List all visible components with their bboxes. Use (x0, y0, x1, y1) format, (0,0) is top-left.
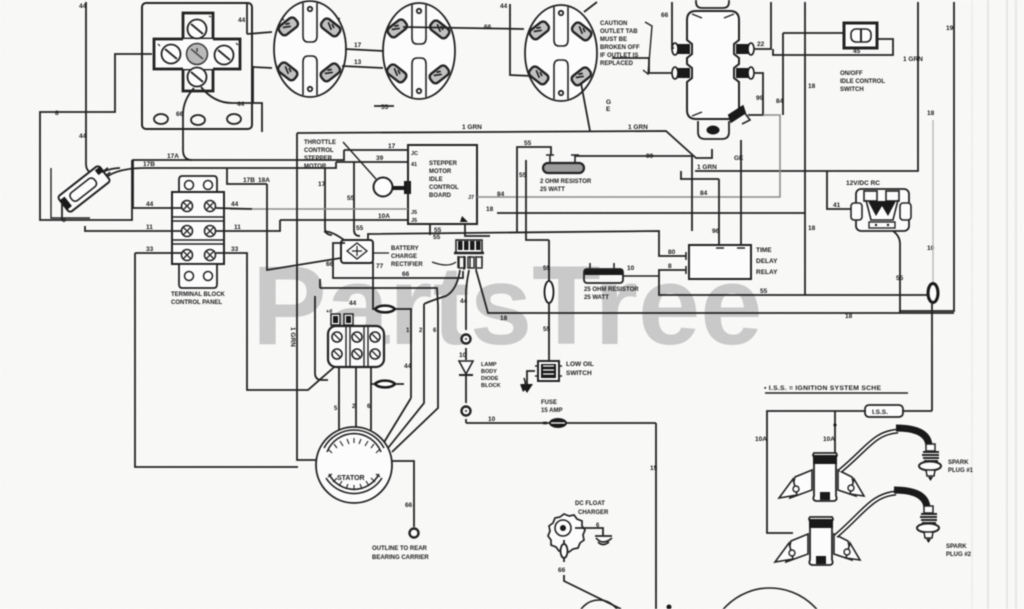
spark plug 2 (917, 506, 939, 543)
wire 55 vertical to low oil (548, 240, 550, 361)
wire 39 into board (108, 162, 408, 176)
wire 41 into 12V RC (827, 171, 851, 209)
oval connector h2 (375, 381, 395, 388)
left bracket wire (315, 296, 328, 380)
jog of 17 wires right of TB (227, 168, 267, 184)
fuse (541, 400, 562, 414)
receptacle R3 duplex (383, 3, 455, 99)
wire 17 into board (133, 150, 408, 208)
small arc bottom left (577, 600, 621, 609)
wire 55 from 12V RC bottom (893, 231, 900, 313)
stator (316, 427, 392, 503)
right vertical 1 GRN (681, 2, 918, 179)
circuit breaker CB main body (672, 0, 754, 139)
ISS module box (865, 405, 903, 417)
engine circle (708, 588, 832, 609)
wire from charger to ground (575, 528, 603, 536)
outline text (372, 546, 429, 561)
plug bottom lead (61, 202, 63, 220)
stepper motor circle (374, 178, 393, 197)
wire 18 long from board right (497, 2, 805, 295)
terminal block text (171, 292, 226, 306)
TD top wires (680, 179, 719, 245)
gray wire to oval (932, 120, 934, 283)
wire R4 top slant (584, 2, 597, 12)
ignition system title (764, 385, 908, 393)
wire switch right loop label 45 (773, 39, 893, 55)
plug guard bracket (51, 168, 90, 218)
CB terminals left (677, 44, 690, 54)
leader rectifier (374, 252, 389, 254)
12V/DC receptacle (846, 180, 911, 231)
receptacle R4 duplex (525, 5, 597, 101)
wire into R2 bottom-left slot (253, 67, 272, 103)
wire 77 rect bottom down (372, 262, 374, 305)
CB actuator bowtie (727, 103, 748, 125)
TB row1 right wire 44 (216, 208, 252, 209)
TB row3 left wire 33 (135, 253, 298, 467)
oval connector right column (928, 284, 938, 303)
wire R2-R3 upper, label 17 (345, 49, 384, 51)
wire 44 from top (86, 2, 94, 174)
connector J1 (454, 240, 484, 270)
CB bottom box (698, 121, 729, 139)
CB terminals right (736, 44, 749, 54)
resistor 2 ohm (543, 155, 584, 173)
bottom trio wires to stator (339, 367, 371, 430)
ignition coil 2 (775, 517, 860, 565)
6-pin connector block (328, 314, 384, 367)
wire rect top-left curve label 55 (324, 232, 344, 240)
gray wire 44 into board bottom-left (230, 208, 408, 210)
wire 55 J1 down-left slant (466, 270, 469, 305)
wire lower loop left (320, 279, 438, 306)
rectifier text (391, 246, 423, 268)
wire 55 into 2ohm left pin (517, 147, 551, 233)
board bottom hooks (430, 224, 490, 236)
connector plug P1 (57, 161, 115, 212)
wire 90 rect top to TD (368, 231, 686, 256)
gray wire 84 from board J7 (477, 115, 780, 197)
wire from R1 bottom screw to right (201, 87, 262, 132)
trio verticals (383, 304, 438, 452)
receptacle R1 120/240V twist-lock cross (154, 13, 240, 91)
terminal block TB (172, 176, 224, 288)
ignition coil 1 (779, 453, 864, 501)
wire 1 GRN long horizontal (297, 83, 712, 158)
wire 17 top-left of rect (267, 184, 341, 270)
switch text (840, 71, 885, 93)
dot near bottom (667, 605, 672, 609)
TB row3 right wire 33 (216, 253, 340, 390)
DC float charger (548, 501, 609, 552)
oval connector h1 (375, 306, 395, 313)
wire 66 rect left loop (333, 243, 463, 278)
ISS wires (903, 302, 932, 411)
spark plug wire 2 (836, 493, 896, 536)
motor lead thick (392, 186, 407, 190)
right vertical 19 (899, 2, 954, 311)
wire 55 vertical mid (354, 162, 360, 236)
on/off idle control switch (844, 23, 877, 48)
TB row2 left wire 11 (85, 226, 182, 231)
wire R2-R3 lower, label 13 (342, 66, 383, 68)
plug top lead to 17B wire (102, 168, 120, 172)
resistor 25 ohm (584, 263, 623, 283)
board pin marks (411, 151, 474, 224)
low oil switch (535, 361, 562, 381)
wire 10 from 25ohm (623, 275, 659, 277)
top pins (331, 314, 340, 325)
wire from R1 bottom screw down (183, 88, 194, 160)
stepper board text (429, 161, 459, 199)
ground from low oil (527, 371, 535, 384)
leader to motor (343, 142, 376, 179)
wire 55 short vertical (526, 160, 549, 240)
lens connector vertical (545, 281, 554, 303)
mounting plate (142, 3, 252, 129)
TD pins (686, 248, 745, 274)
diode chain (465, 305, 467, 423)
spark plug wire 1 (840, 431, 898, 471)
wire R3 to R4 top (403, 27, 524, 29)
charger bottom link (561, 544, 568, 558)
TB row1 left wire 44 (132, 207, 182, 209)
wire 10A into board lower-left (280, 219, 408, 221)
spark plug 1 (919, 444, 941, 481)
leader text to J1 (432, 262, 456, 265)
time delay relay (689, 245, 751, 279)
wire loop CB right-bottom label 99 (748, 73, 763, 115)
battery charge rectifier (341, 240, 373, 263)
wire into switch left (783, 33, 844, 115)
vertical 1 GRN to stator (297, 133, 317, 460)
stepper board box (408, 145, 477, 224)
wires J1 to trio (424, 270, 460, 304)
wire 66 into CB top-left (672, 2, 674, 48)
wire CB lower-left going left (612, 58, 672, 73)
arrow mark (523, 378, 525, 389)
TD pin2 wire to right oval (659, 270, 928, 295)
wire 22 CB right-top (754, 2, 771, 49)
wire 17 vertical left (325, 168, 332, 235)
throttle control stepper motor text (304, 140, 336, 170)
stator right wire 66 (392, 461, 414, 527)
wire 18 bus slant from J1 (476, 270, 954, 313)
caution leader lines (643, 22, 652, 74)
lamp body text (481, 362, 501, 389)
receptacle R2 duplex (274, 1, 346, 97)
wires around ovals (370, 305, 411, 398)
wire into R2 top-left slot (247, 2, 272, 34)
fuse wire (466, 423, 656, 609)
wire 99 from 2ohm right pin (575, 156, 692, 231)
wire from R1 left arm (40, 54, 152, 220)
TB row2 right wire 11 (216, 220, 280, 231)
wire R4 left lower (510, 4, 532, 76)
caution note text (600, 21, 640, 67)
